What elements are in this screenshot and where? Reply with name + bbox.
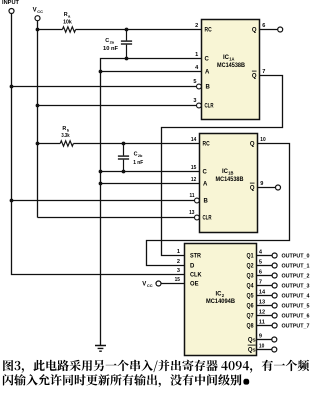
svg-text:3: 3 bbox=[177, 268, 180, 274]
svg-text:OUTPUT_4: OUTPUT_4 bbox=[282, 293, 310, 299]
svg-text:OUTPUT_6: OUTPUT_6 bbox=[282, 313, 310, 319]
svg-text:14: 14 bbox=[259, 289, 266, 295]
node OUTPUT_2 terminal bbox=[272, 273, 277, 278]
wire IC2 Q2 to OUTPUT_1 terminal bbox=[257, 265, 273, 267]
svg-text:9: 9 bbox=[260, 181, 263, 187]
svg-text:CC: CC bbox=[147, 283, 153, 288]
svg-text:C: C bbox=[205, 57, 210, 63]
wire VCC to resistor Ra to IC1A pin 2 (RC) bbox=[38, 29, 63, 31]
svg-text:CLK: CLK bbox=[190, 273, 202, 279]
wire VCC terminal to IC2 pin 15 (OE) bbox=[161, 283, 184, 285]
svg-text:5: 5 bbox=[193, 79, 196, 85]
node INPUT terminal bbox=[9, 9, 14, 14]
wire IC1B pin 9 (Qbar) to output terminal bbox=[258, 187, 276, 189]
wire VCC vertical bbox=[37, 21, 39, 218]
junction ground rail - IC1B C bbox=[99, 170, 103, 174]
svg-text:CC: CC bbox=[37, 9, 43, 14]
node OUTPUT_6 terminal bbox=[272, 313, 277, 318]
svg-text:1 nF: 1 nF bbox=[133, 160, 144, 166]
junction INPUT-B bbox=[10, 85, 14, 89]
svg-text:MC14094B: MC14094B bbox=[206, 299, 236, 305]
wire IC2 QSbar to terminal bbox=[257, 349, 272, 351]
caption line 1 bbox=[3, 360, 309, 373]
svg-text:Q8: Q8 bbox=[247, 324, 255, 330]
svg-text:15: 15 bbox=[191, 165, 196, 171]
svg-text:B: B bbox=[204, 199, 209, 205]
svg-text:CLR: CLR bbox=[203, 216, 212, 222]
svg-text:7: 7 bbox=[262, 69, 265, 75]
svg-text:MC14538B: MC14538B bbox=[216, 177, 245, 183]
svg-text:RC: RC bbox=[203, 142, 211, 148]
junction VCC-CLR bbox=[36, 104, 40, 108]
wire INPUT vertical + CLK run to IC2 pin 3 bbox=[12, 14, 185, 275]
svg-text:S: S bbox=[253, 338, 256, 343]
svg-text:OUTPUT_0: OUTPUT_0 bbox=[282, 253, 310, 259]
wire VCC to IC1A pin 3 (CLR) bbox=[38, 105, 197, 107]
wire IC2 Q1 to OUTPUT_0 terminal bbox=[257, 255, 273, 257]
svg-text:3.3k: 3.3k bbox=[61, 133, 69, 139]
wire IC2 Q4 to OUTPUT_3 terminal bbox=[257, 285, 273, 287]
svg-text:OUTPUT_7: OUTPUT_7 bbox=[282, 323, 310, 329]
wire INPUT to IC1B pin 11 (B) bbox=[12, 200, 195, 202]
svg-text:OUTPUT_5: OUTPUT_5 bbox=[282, 303, 310, 309]
svg-text:7: 7 bbox=[259, 279, 262, 285]
svg-text:1B: 1B bbox=[228, 170, 233, 175]
wire VCC to resistor Rb to IC1B pin 14 (RC) bbox=[38, 143, 61, 145]
svg-text:S: S bbox=[253, 348, 256, 353]
wire ground rail to IC1B pin 15 (C) bbox=[101, 171, 200, 173]
svg-text:12: 12 bbox=[259, 309, 265, 315]
svg-text:V: V bbox=[33, 8, 37, 14]
resistor Ra bbox=[62, 27, 75, 32]
svg-text:V: V bbox=[142, 282, 146, 288]
svg-text:13: 13 bbox=[189, 210, 194, 216]
wire IC1A pin 1 (C) to ground rail bbox=[101, 59, 202, 346]
junction INPUT-IC1B B bbox=[10, 199, 14, 203]
svg-text:1: 1 bbox=[177, 249, 180, 255]
wire IC2 Q6 to OUTPUT_5 terminal bbox=[257, 305, 273, 307]
wire IC2 QS to terminal bbox=[257, 339, 272, 341]
wire INPUT to IC1A pin 5 (B) bbox=[12, 86, 197, 88]
wire IC1B pin 10 (Q) to IC2 pin 2 (D) bbox=[147, 144, 290, 266]
node OUTPUT_4 terminal bbox=[272, 293, 277, 298]
svg-text:Q3: Q3 bbox=[247, 274, 255, 280]
node QS terminal bbox=[272, 337, 277, 342]
svg-text:Q2: Q2 bbox=[247, 264, 255, 270]
node Q1A output terminal bbox=[278, 27, 283, 32]
wire IC2 Q3 to OUTPUT_2 terminal bbox=[257, 275, 273, 277]
svg-text:RC: RC bbox=[205, 28, 213, 34]
wire VCC to IC1B pin 13 (CLR) bbox=[38, 217, 195, 219]
capacitor C2a bbox=[126, 30, 128, 41]
wire IC2 Q7 to OUTPUT_6 terminal bbox=[257, 315, 273, 317]
bubble IC1B pin B bbox=[195, 198, 200, 203]
svg-text:OUTPUT_2: OUTPUT_2 bbox=[282, 273, 310, 279]
wire IC2 Q8 to OUTPUT_7 terminal bbox=[257, 325, 273, 327]
capacitor C2b bbox=[123, 144, 125, 156]
svg-text:D: D bbox=[190, 264, 195, 270]
svg-text:Q6: Q6 bbox=[247, 304, 255, 310]
svg-text:A: A bbox=[203, 182, 208, 188]
wire IC2 Q5 to OUTPUT_4 terminal bbox=[257, 295, 273, 297]
svg-text:5: 5 bbox=[259, 259, 262, 265]
resistor Rb bbox=[60, 141, 73, 146]
junction VCC-Rb bbox=[36, 142, 40, 146]
wire ground rail to IC1B pin 12 (A) bbox=[101, 183, 200, 185]
svg-text:2: 2 bbox=[195, 23, 198, 29]
svg-text:13: 13 bbox=[259, 299, 265, 305]
svg-text:14: 14 bbox=[191, 137, 197, 143]
svg-text:10: 10 bbox=[260, 137, 265, 143]
op IC1B box MC14538B bbox=[200, 134, 258, 233]
junction C2a top bbox=[125, 28, 129, 32]
svg-text:OUTPUT_3: OUTPUT_3 bbox=[282, 283, 310, 289]
svg-text:3: 3 bbox=[193, 98, 196, 104]
junction VCC-Ra bbox=[36, 28, 40, 32]
svg-text:Q4: Q4 bbox=[247, 284, 255, 290]
svg-text:OUTPUT_1: OUTPUT_1 bbox=[282, 263, 310, 269]
svg-text:INPUT: INPUT bbox=[2, 0, 19, 6]
wire IC1A pin 4 (A) from ground rail bbox=[101, 71, 202, 73]
wire IC1A pin 6 (Q) to output terminal bbox=[260, 29, 278, 31]
svg-text:1A: 1A bbox=[229, 57, 234, 62]
caption line 2 bbox=[3, 374, 242, 387]
op IC1A box MC14538B bbox=[202, 20, 260, 120]
wire IC1A pin 7 (Qbar) to IC2 pin 1 (STR) bbox=[162, 76, 283, 256]
svg-text:11: 11 bbox=[259, 319, 265, 325]
node QSbar terminal bbox=[272, 347, 277, 352]
node Q1B-bar output terminal bbox=[276, 185, 281, 190]
node OUTPUT_1 terminal bbox=[272, 263, 277, 268]
svg-text:Q: Q bbox=[252, 28, 257, 34]
svg-text:1: 1 bbox=[195, 52, 198, 58]
junction C2b top bbox=[122, 142, 126, 146]
ground symbol bbox=[95, 346, 106, 352]
svg-text:2b: 2b bbox=[138, 153, 143, 158]
svg-text:15: 15 bbox=[175, 277, 180, 283]
svg-text:6: 6 bbox=[259, 269, 262, 275]
svg-text:Q5: Q5 bbox=[247, 294, 255, 300]
bubble IC1B pin CLR bbox=[195, 215, 200, 220]
node OUTPUT_5 terminal bbox=[272, 303, 277, 308]
junction ground rail - pin A bbox=[99, 70, 103, 74]
svg-text:OE: OE bbox=[190, 282, 199, 288]
svg-text:Q: Q bbox=[250, 142, 255, 148]
svg-text:9: 9 bbox=[259, 333, 262, 339]
svg-text:10: 10 bbox=[259, 343, 264, 349]
op IC2 box MC14094B bbox=[185, 244, 257, 356]
svg-text:C: C bbox=[203, 170, 208, 176]
svg-text:11: 11 bbox=[190, 193, 195, 199]
svg-text:Q: Q bbox=[250, 186, 255, 192]
svg-text:Q: Q bbox=[252, 74, 257, 80]
svg-text:A: A bbox=[205, 70, 210, 76]
svg-text:10k: 10k bbox=[63, 19, 72, 25]
node OUTPUT_3 terminal bbox=[272, 283, 277, 288]
junction C2a bottom bbox=[125, 57, 129, 61]
svg-text:B: B bbox=[206, 85, 211, 91]
bubble IC1A pin B bbox=[197, 84, 202, 89]
svg-text:12: 12 bbox=[191, 177, 196, 183]
junction ground rail - IC1B A bbox=[99, 182, 103, 186]
node OUTPUT_0 terminal bbox=[272, 253, 277, 258]
node OUTPUT_7 terminal bbox=[272, 323, 277, 328]
svg-text:2: 2 bbox=[177, 259, 180, 265]
svg-text:6: 6 bbox=[262, 23, 265, 29]
node VCC terminal (top) bbox=[35, 16, 40, 21]
node VCC terminal (OE) bbox=[156, 281, 161, 286]
svg-text:STR: STR bbox=[190, 254, 202, 260]
svg-text:10 nF: 10 nF bbox=[103, 46, 119, 52]
svg-text:MC14538B: MC14538B bbox=[217, 63, 246, 69]
junction C2b bottom bbox=[122, 170, 126, 174]
svg-text:CLR: CLR bbox=[205, 104, 214, 110]
svg-text:Q7: Q7 bbox=[247, 314, 255, 320]
svg-text:Q1: Q1 bbox=[247, 254, 255, 260]
bubble IC1A pin CLR bbox=[197, 103, 202, 108]
